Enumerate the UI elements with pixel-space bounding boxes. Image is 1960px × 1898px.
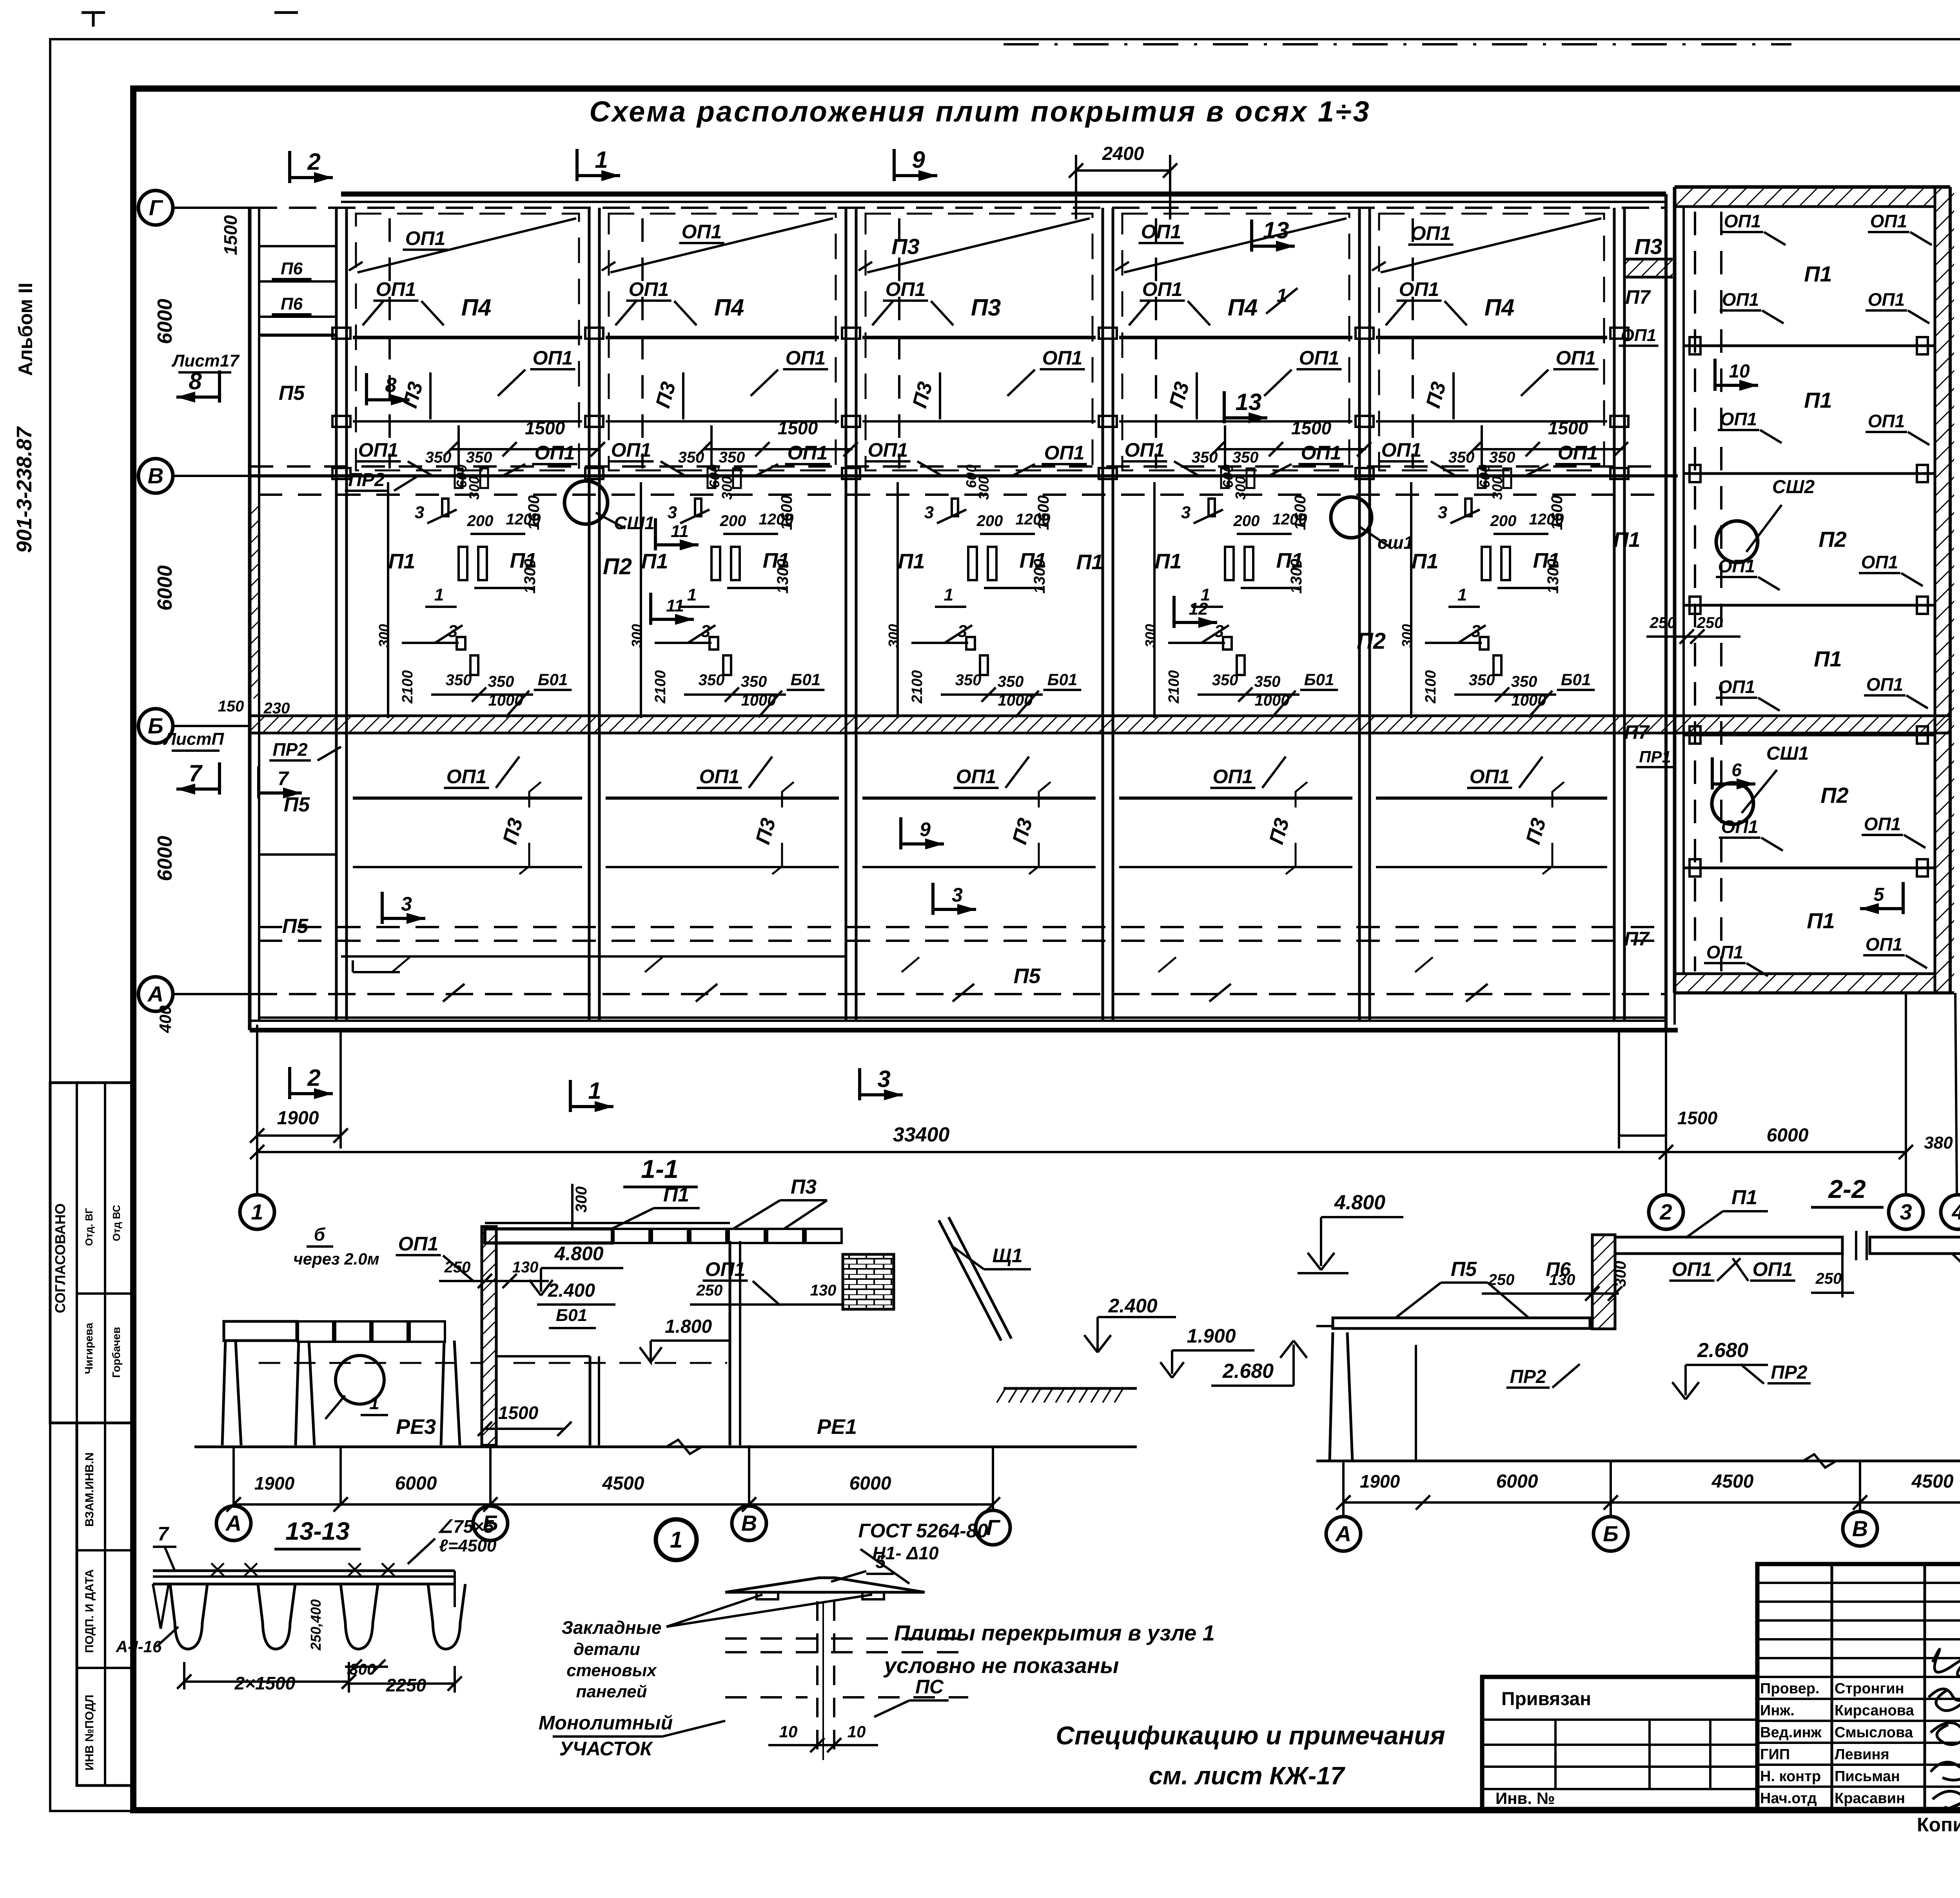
svg-text:А: А xyxy=(1335,1521,1351,1546)
svg-text:1: 1 xyxy=(434,585,444,604)
svg-text:П2: П2 xyxy=(1357,628,1386,654)
svg-text:Лист17: Лист17 xyxy=(171,351,240,370)
svg-text:ОП1: ОП1 xyxy=(1141,221,1181,243)
svg-text:П5: П5 xyxy=(1451,1258,1477,1281)
svg-text:4: 4 xyxy=(1951,1199,1960,1224)
svg-text:300: 300 xyxy=(573,1187,590,1213)
svg-text:П1: П1 xyxy=(1814,646,1842,671)
svg-text:ПР2: ПР2 xyxy=(272,739,308,760)
svg-text:П2: П2 xyxy=(1818,527,1846,552)
svg-text:Смыслова: Смыслова xyxy=(1835,1724,1913,1741)
svg-text:ОП1: ОП1 xyxy=(956,766,996,788)
svg-text:200: 200 xyxy=(720,512,746,530)
svg-text:4500: 4500 xyxy=(602,1473,644,1494)
svg-text:2.400: 2.400 xyxy=(548,1280,595,1301)
svg-text:250: 250 xyxy=(1650,614,1676,631)
svg-text:детали: детали xyxy=(573,1640,640,1659)
svg-text:1: 1 xyxy=(588,1078,601,1104)
svg-text:350: 350 xyxy=(488,673,514,690)
svg-text:ОП1: ОП1 xyxy=(1722,289,1759,310)
svg-text:6000: 6000 xyxy=(1496,1471,1538,1492)
svg-text:6: 6 xyxy=(1731,760,1742,780)
svg-text:см. лист КЖ-17: см. лист КЖ-17 xyxy=(1149,1762,1346,1790)
svg-text:7: 7 xyxy=(158,1523,169,1545)
svg-text:∠75×5: ∠75×5 xyxy=(437,1516,494,1537)
svg-text:250: 250 xyxy=(444,1259,471,1276)
svg-text:1-1: 1-1 xyxy=(641,1154,678,1183)
svg-text:П7: П7 xyxy=(1624,721,1650,743)
svg-text:Нач.отд: Нач.отд xyxy=(1760,1790,1817,1807)
svg-text:П1: П1 xyxy=(1155,550,1182,573)
svg-text:П6: П6 xyxy=(281,294,303,314)
svg-text:400: 400 xyxy=(156,1005,174,1033)
svg-text:Красавин: Красавин xyxy=(1835,1790,1905,1807)
svg-text:ОП1: ОП1 xyxy=(786,347,826,369)
svg-text:ПР2: ПР2 xyxy=(1510,1366,1546,1387)
svg-text:901-3-238.87: 901-3-238.87 xyxy=(13,426,36,553)
svg-text:П3: П3 xyxy=(1634,234,1662,259)
svg-text:Монолитный: Монолитный xyxy=(539,1712,673,1734)
svg-text:250: 250 xyxy=(1815,1270,1842,1287)
svg-text:1: 1 xyxy=(670,1527,682,1553)
svg-text:Б01: Б01 xyxy=(538,670,568,689)
svg-text:СОГЛАСОВАНО: СОГЛАСОВАНО xyxy=(52,1203,68,1313)
svg-text:УЧАСТОК: УЧАСТОК xyxy=(559,1738,653,1760)
svg-text:3: 3 xyxy=(401,893,412,915)
svg-text:3: 3 xyxy=(668,503,677,522)
svg-text:ОП1: ОП1 xyxy=(886,278,926,300)
svg-text:Г: Г xyxy=(986,1515,1001,1540)
svg-text:ОП1: ОП1 xyxy=(1720,409,1757,429)
svg-text:Закладные: Закладные xyxy=(562,1617,662,1638)
svg-text:11: 11 xyxy=(666,596,684,615)
svg-text:Письман: Письман xyxy=(1835,1768,1900,1785)
svg-text:ОП1: ОП1 xyxy=(1718,677,1755,697)
svg-text:П3: П3 xyxy=(891,234,919,259)
svg-text:350: 350 xyxy=(466,449,492,466)
svg-text:1600: 1600 xyxy=(1292,495,1309,530)
svg-text:3: 3 xyxy=(415,503,424,522)
svg-text:условно не показаны: условно не показаны xyxy=(883,1653,1119,1678)
svg-text:7: 7 xyxy=(189,760,203,786)
svg-text:5: 5 xyxy=(1874,884,1885,905)
svg-text:ОП1: ОП1 xyxy=(1213,766,1253,788)
svg-text:200: 200 xyxy=(976,512,1003,530)
svg-text:11: 11 xyxy=(671,522,689,541)
svg-text:300: 300 xyxy=(1399,624,1415,648)
svg-text:2×1500: 2×1500 xyxy=(234,1673,296,1693)
svg-text:ОП1: ОП1 xyxy=(405,227,446,249)
svg-text:2: 2 xyxy=(1659,1199,1672,1224)
svg-text:4.800: 4.800 xyxy=(1334,1191,1385,1214)
svg-text:П4: П4 xyxy=(714,294,744,321)
svg-text:П5: П5 xyxy=(1014,964,1041,988)
svg-text:350: 350 xyxy=(1489,449,1515,466)
svg-text:380: 380 xyxy=(1924,1133,1953,1152)
svg-text:350: 350 xyxy=(1232,449,1259,466)
svg-text:3: 3 xyxy=(1900,1199,1912,1224)
svg-text:1: 1 xyxy=(369,1393,379,1413)
svg-text:П1: П1 xyxy=(641,550,668,573)
svg-text:Горбачев: Горбачев xyxy=(110,1327,122,1378)
svg-text:Провер.: Провер. xyxy=(1760,1680,1820,1697)
svg-text:П3: П3 xyxy=(791,1176,817,1198)
svg-text:300: 300 xyxy=(629,624,645,648)
svg-text:Б: Б xyxy=(1603,1521,1619,1546)
svg-text:Щ1: Щ1 xyxy=(992,1245,1022,1267)
svg-text:Копировал: Антипова: Копировал: Антипова xyxy=(1917,1814,1960,1836)
svg-text:13-13: 13-13 xyxy=(285,1517,350,1545)
svg-text:П1: П1 xyxy=(1804,388,1832,412)
svg-text:П1: П1 xyxy=(1412,550,1439,573)
svg-text:П3: П3 xyxy=(971,294,1001,321)
svg-text:350: 350 xyxy=(1469,671,1495,689)
svg-text:2.680: 2.680 xyxy=(1222,1360,1274,1383)
svg-text:П7: П7 xyxy=(1625,286,1651,308)
svg-text:ОП1: ОП1 xyxy=(1621,326,1656,345)
svg-text:Стронгин: Стронгин xyxy=(1835,1680,1904,1697)
svg-text:350: 350 xyxy=(1192,449,1218,466)
svg-text:2250: 2250 xyxy=(386,1675,426,1695)
svg-text:300: 300 xyxy=(1612,1261,1629,1287)
svg-text:350: 350 xyxy=(719,449,745,466)
svg-text:2.400: 2.400 xyxy=(1108,1295,1157,1317)
svg-text:2100: 2100 xyxy=(399,670,416,704)
svg-text:1.900: 1.900 xyxy=(1187,1325,1236,1347)
svg-text:П1: П1 xyxy=(1804,261,1832,286)
svg-text:ОП1: ОП1 xyxy=(535,442,575,464)
svg-text:2: 2 xyxy=(307,149,320,175)
svg-text:П1: П1 xyxy=(1613,528,1641,552)
svg-text:1600: 1600 xyxy=(1035,495,1052,530)
svg-text:через 2.0м: через 2.0м xyxy=(293,1250,379,1268)
svg-text:Инв. №: Инв. № xyxy=(1495,1789,1555,1807)
svg-text:1: 1 xyxy=(251,1199,263,1224)
svg-text:1: 1 xyxy=(595,147,608,173)
svg-text:ОП1: ОП1 xyxy=(682,221,722,243)
svg-text:300: 300 xyxy=(719,476,735,500)
svg-text:350: 350 xyxy=(998,673,1024,690)
svg-text:1900: 1900 xyxy=(277,1108,319,1129)
svg-text:ЛистП: ЛистП xyxy=(163,729,225,749)
svg-text:б: б xyxy=(314,1224,326,1245)
svg-text:2: 2 xyxy=(307,1065,320,1091)
svg-text:250: 250 xyxy=(1488,1271,1515,1288)
svg-text:2400: 2400 xyxy=(1102,143,1144,164)
svg-text:2100: 2100 xyxy=(1423,670,1439,704)
svg-text:350: 350 xyxy=(425,449,452,466)
svg-text:ПОДП. И ДАТА: ПОДП. И ДАТА xyxy=(83,1569,96,1653)
svg-text:П2: П2 xyxy=(1820,783,1848,807)
svg-text:8: 8 xyxy=(189,368,202,394)
svg-text:А: А xyxy=(147,982,163,1006)
svg-text:4500: 4500 xyxy=(1911,1471,1954,1492)
svg-text:П1: П1 xyxy=(663,1183,689,1206)
svg-text:10: 10 xyxy=(1729,361,1750,382)
svg-text:ОП1: ОП1 xyxy=(1672,1258,1712,1280)
svg-text:1500: 1500 xyxy=(525,418,565,438)
svg-text:ОП1: ОП1 xyxy=(446,766,487,788)
svg-text:ОП1: ОП1 xyxy=(611,439,652,461)
svg-text:7: 7 xyxy=(278,768,289,789)
svg-text:1.800: 1.800 xyxy=(665,1316,712,1337)
svg-text:1900: 1900 xyxy=(1360,1471,1400,1492)
svg-text:А-I-16: А-I-16 xyxy=(116,1637,162,1656)
svg-text:130: 130 xyxy=(810,1282,837,1299)
svg-text:200: 200 xyxy=(1490,512,1517,530)
svg-text:ОП1: ОП1 xyxy=(1125,439,1165,461)
svg-text:А: А xyxy=(225,1511,241,1535)
svg-text:13: 13 xyxy=(1236,389,1262,415)
svg-text:ОП1: ОП1 xyxy=(1706,942,1743,962)
svg-text:1: 1 xyxy=(687,585,697,604)
svg-text:350: 350 xyxy=(678,449,704,466)
svg-text:ОП1: ОП1 xyxy=(533,347,573,369)
svg-text:250: 250 xyxy=(696,1282,723,1299)
svg-text:П7: П7 xyxy=(1624,928,1650,950)
svg-text:ОП1: ОП1 xyxy=(1870,211,1907,231)
svg-text:130: 130 xyxy=(1549,1271,1575,1288)
svg-text:300: 300 xyxy=(886,624,902,648)
svg-text:ГОСТ 5264-80: ГОСТ 5264-80 xyxy=(858,1520,988,1542)
svg-text:П4: П4 xyxy=(1228,294,1258,321)
svg-text:ОП1: ОП1 xyxy=(1299,347,1339,369)
svg-text:ОП1: ОП1 xyxy=(1753,1258,1793,1280)
svg-text:6000: 6000 xyxy=(395,1473,437,1494)
svg-text:250,400: 250,400 xyxy=(308,1599,324,1651)
svg-text:П5: П5 xyxy=(284,793,310,816)
svg-text:2100: 2100 xyxy=(1166,670,1182,704)
svg-text:П4: П4 xyxy=(461,294,492,321)
svg-text:ОП1: ОП1 xyxy=(1868,411,1905,431)
svg-text:3: 3 xyxy=(877,1066,890,1092)
svg-text:Чигирева: Чигирева xyxy=(83,1323,95,1374)
svg-text:П5: П5 xyxy=(282,915,309,938)
svg-text:Привязан: Привязан xyxy=(1501,1689,1591,1709)
svg-text:ОП1: ОП1 xyxy=(376,278,416,300)
svg-text:200: 200 xyxy=(1233,512,1260,530)
svg-text:ОП1: ОП1 xyxy=(1381,439,1422,461)
svg-text:Отд. ВГ: Отд. ВГ xyxy=(83,1208,95,1246)
svg-text:1500: 1500 xyxy=(1548,418,1588,438)
svg-text:350: 350 xyxy=(1448,449,1475,466)
svg-text:Б01: Б01 xyxy=(1047,670,1077,689)
svg-text:5: 5 xyxy=(875,1551,886,1572)
svg-text:СШ2: СШ2 xyxy=(1772,477,1815,497)
svg-text:150: 150 xyxy=(218,698,244,715)
svg-text:ОП1: ОП1 xyxy=(1042,347,1083,369)
svg-text:Инж.: Инж. xyxy=(1760,1702,1795,1719)
svg-text:Спецификацию и примечания: Спецификацию и примечания xyxy=(1056,1721,1445,1750)
svg-text:Вед.инж: Вед.инж xyxy=(1760,1724,1822,1741)
svg-text:300: 300 xyxy=(466,476,482,500)
svg-text:Плиты перекрытия в узле 1: Плиты перекрытия в узле 1 xyxy=(894,1620,1215,1645)
svg-text:ОП1: ОП1 xyxy=(1301,442,1341,464)
svg-text:3: 3 xyxy=(1438,503,1447,522)
svg-text:300: 300 xyxy=(1142,624,1158,648)
svg-text:СШ1: СШ1 xyxy=(1766,743,1809,764)
svg-text:СШ1: СШ1 xyxy=(614,513,655,533)
svg-text:2100: 2100 xyxy=(652,670,669,704)
svg-text:3: 3 xyxy=(952,884,963,906)
svg-text:П1: П1 xyxy=(388,550,416,573)
svg-text:П5: П5 xyxy=(279,382,305,405)
svg-text:ОП1: ОП1 xyxy=(1558,442,1598,464)
svg-text:10: 10 xyxy=(848,1722,866,1741)
svg-text:350: 350 xyxy=(1511,673,1537,690)
svg-text:6000: 6000 xyxy=(849,1473,891,1494)
svg-text:1500: 1500 xyxy=(778,418,818,438)
svg-text:Кирсанова: Кирсанова xyxy=(1835,1702,1915,1719)
svg-text:ОП1: ОП1 xyxy=(1044,442,1085,464)
svg-text:2-2: 2-2 xyxy=(1828,1174,1866,1203)
svg-text:ОП1: ОП1 xyxy=(699,766,740,788)
svg-text:1600: 1600 xyxy=(1548,495,1566,530)
svg-text:П1: П1 xyxy=(898,550,925,573)
svg-text:ОП1: ОП1 xyxy=(1470,766,1510,788)
svg-text:2.680: 2.680 xyxy=(1697,1339,1748,1362)
svg-text:ℓ=4500: ℓ=4500 xyxy=(439,1536,497,1555)
svg-text:ОП1: ОП1 xyxy=(398,1233,439,1255)
svg-text:33400: 33400 xyxy=(893,1123,950,1146)
svg-text:8: 8 xyxy=(385,374,397,397)
svg-text:1600: 1600 xyxy=(525,495,543,530)
svg-text:П1: П1 xyxy=(1076,550,1103,574)
svg-text:ИНВ №ПОДЛ: ИНВ №ПОДЛ xyxy=(83,1695,96,1771)
svg-text:ОП1: ОП1 xyxy=(1868,289,1905,310)
svg-text:1500: 1500 xyxy=(1291,418,1332,438)
svg-text:ОП1: ОП1 xyxy=(1864,814,1901,834)
svg-text:ОП1: ОП1 xyxy=(1721,817,1758,837)
svg-text:1500: 1500 xyxy=(498,1403,539,1423)
svg-text:1600: 1600 xyxy=(778,495,795,530)
svg-text:Альбом II: Альбом II xyxy=(15,283,36,376)
svg-text:П2: П2 xyxy=(603,554,632,579)
svg-text:1900: 1900 xyxy=(254,1473,295,1493)
svg-text:ОП1: ОП1 xyxy=(1861,552,1898,572)
svg-text:Отд ВС: Отд ВС xyxy=(111,1205,122,1241)
svg-text:ПР2: ПР2 xyxy=(348,470,385,490)
svg-text:1500: 1500 xyxy=(220,215,241,255)
svg-text:2100: 2100 xyxy=(909,670,926,704)
svg-text:12: 12 xyxy=(1189,599,1208,619)
svg-text:3: 3 xyxy=(924,503,934,522)
svg-text:3: 3 xyxy=(1181,503,1191,522)
svg-text:300: 300 xyxy=(376,624,392,648)
svg-text:10: 10 xyxy=(779,1722,798,1741)
svg-text:9: 9 xyxy=(920,818,931,840)
svg-text:350: 350 xyxy=(699,671,725,689)
svg-text:350: 350 xyxy=(1212,671,1238,689)
svg-text:ВЗАМ.ИНВ.N: ВЗАМ.ИНВ.N xyxy=(83,1452,96,1527)
svg-text:ОП1: ОП1 xyxy=(1411,222,1451,244)
svg-text:ПС: ПС xyxy=(915,1676,944,1698)
svg-text:ОП1: ОП1 xyxy=(358,439,399,461)
svg-text:6000: 6000 xyxy=(1767,1125,1809,1146)
svg-text:ПР2: ПР2 xyxy=(1771,1362,1808,1383)
svg-text:ОП1: ОП1 xyxy=(868,439,908,461)
svg-text:6000: 6000 xyxy=(154,565,176,611)
svg-text:Б: Б xyxy=(148,713,163,738)
svg-text:ГИП: ГИП xyxy=(1760,1746,1790,1763)
svg-text:Б01: Б01 xyxy=(556,1306,587,1325)
svg-text:РЕ3: РЕ3 xyxy=(396,1415,436,1439)
svg-text:В: В xyxy=(1852,1516,1868,1541)
svg-text:230: 230 xyxy=(263,700,290,717)
svg-text:4.800: 4.800 xyxy=(554,1243,603,1265)
svg-text:200: 200 xyxy=(467,512,494,530)
svg-text:ОП1: ОП1 xyxy=(629,278,669,300)
svg-text:250: 250 xyxy=(1697,614,1723,631)
svg-text:350: 350 xyxy=(1254,673,1281,690)
svg-text:6000: 6000 xyxy=(154,299,176,344)
svg-text:ОП1: ОП1 xyxy=(1556,347,1596,369)
svg-text:Б01: Б01 xyxy=(791,670,820,689)
svg-text:1: 1 xyxy=(1457,585,1467,604)
svg-text:300: 300 xyxy=(1232,476,1249,500)
svg-text:1: 1 xyxy=(944,585,953,604)
svg-text:350: 350 xyxy=(446,671,472,689)
svg-text:ОП1: ОП1 xyxy=(1142,278,1183,300)
svg-text:ПР1: ПР1 xyxy=(1639,748,1671,766)
svg-text:Левиня: Левиня xyxy=(1835,1746,1889,1763)
svg-text:ОП1: ОП1 xyxy=(788,442,828,464)
svg-text:В: В xyxy=(741,1511,757,1535)
svg-text:П1: П1 xyxy=(1807,908,1835,933)
svg-text:9: 9 xyxy=(912,147,925,173)
svg-text:13: 13 xyxy=(1263,217,1289,243)
svg-text:300: 300 xyxy=(1489,476,1505,500)
svg-text:Г: Г xyxy=(149,195,163,220)
svg-text:П4: П4 xyxy=(1485,294,1515,321)
svg-text:панелей: панелей xyxy=(576,1682,647,1701)
svg-text:ОП1: ОП1 xyxy=(1866,934,1902,954)
svg-text:ОП1: ОП1 xyxy=(1724,211,1761,231)
svg-text:350: 350 xyxy=(741,673,767,690)
svg-text:стеновых: стеновых xyxy=(566,1661,657,1680)
svg-text:Б01: Б01 xyxy=(1561,670,1591,689)
svg-text:Схема расположения плит пок: Схема расположения плит покрытия в осях … xyxy=(589,95,1370,128)
svg-text:ОП1: ОП1 xyxy=(1866,674,1903,695)
svg-text:6000: 6000 xyxy=(154,836,176,881)
svg-text:350: 350 xyxy=(955,671,982,689)
svg-text:300: 300 xyxy=(976,476,992,500)
svg-text:Б01: Б01 xyxy=(1304,670,1334,689)
svg-text:РЕ1: РЕ1 xyxy=(817,1415,857,1439)
svg-text:Н. контр: Н. контр xyxy=(1760,1768,1821,1785)
svg-text:П1: П1 xyxy=(1731,1186,1757,1209)
svg-text:П6: П6 xyxy=(281,259,303,278)
svg-text:1500: 1500 xyxy=(1677,1108,1718,1128)
svg-text:ОП1: ОП1 xyxy=(1399,278,1439,300)
svg-text:В: В xyxy=(148,463,163,488)
svg-text:4500: 4500 xyxy=(1711,1471,1754,1492)
